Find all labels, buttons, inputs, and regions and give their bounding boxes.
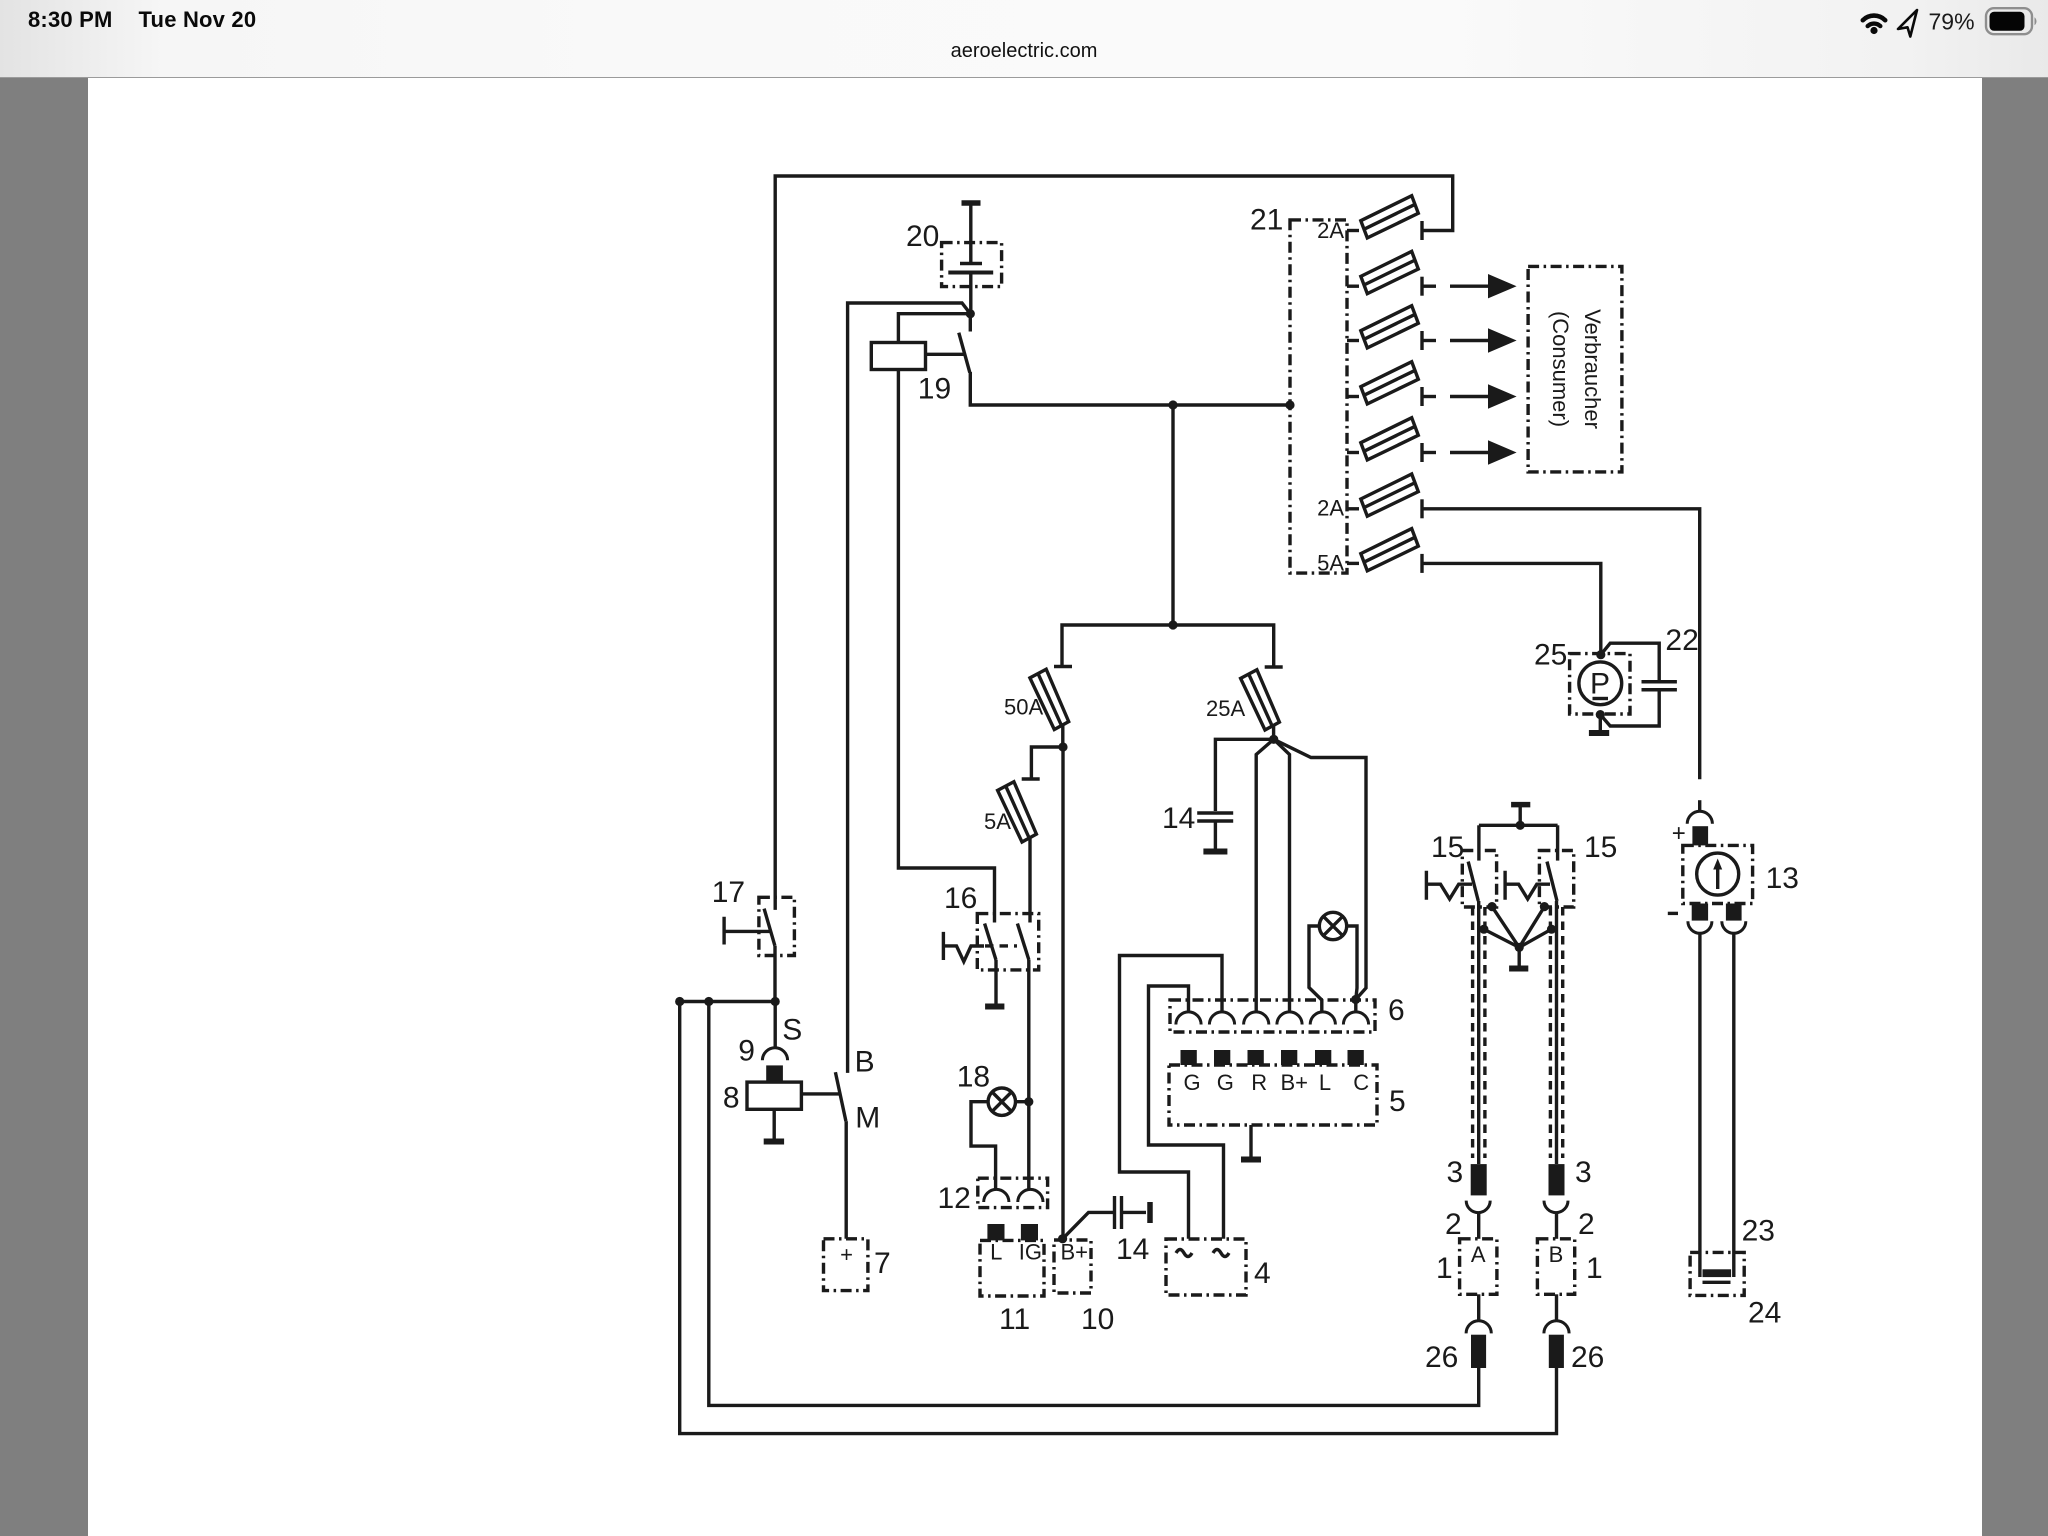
- magneto coil 8: [747, 1082, 801, 1109]
- wire 25A fuse output: [1272, 725, 1275, 739]
- svg-text:25: 25: [1534, 639, 1567, 672]
- svg-text:2: 2: [1578, 1208, 1595, 1241]
- wire terminal to tee: [1518, 807, 1521, 825]
- wire ground return to connector 26 right: [680, 1002, 1557, 1434]
- switch 16 coupling: [985, 944, 1017, 947]
- node 50A output junction: [1058, 742, 1067, 751]
- wire 25A node to connector 6 pin6: [1274, 739, 1366, 999]
- node charge lamp junction: [1351, 995, 1360, 1004]
- wire switch 16 right pole to lamp 18 and connector 12: [1027, 960, 1030, 1189]
- switch 17 blade: [764, 909, 775, 946]
- svg-text:22: 22: [1665, 624, 1698, 657]
- node shield ground: [1515, 943, 1524, 952]
- spark plug 7: [824, 1239, 868, 1291]
- switch 17 actuator: [724, 917, 770, 945]
- svg-text:6: 6: [1388, 994, 1405, 1027]
- wire node to points contact B (long left drop): [848, 303, 971, 1073]
- wire magneto to ground: [773, 1109, 776, 1139]
- ground at switch 16: [985, 1004, 1004, 1010]
- capacitor 14: [1197, 811, 1233, 814]
- wire lamp 18 left lead to connector 12: [971, 1102, 996, 1189]
- wire relay coil top to node: [898, 314, 970, 343]
- capacitor 22: [1642, 680, 1677, 684]
- terminal pin of magneto: [766, 1065, 783, 1082]
- connector socket 2 (B side): [1544, 1201, 1568, 1213]
- wire junction to 5A fuse input: [1031, 747, 1063, 778]
- svg-text:17: 17: [712, 876, 745, 909]
- horn 24: [1690, 1252, 1744, 1295]
- arrow to consumer: [1423, 274, 1517, 298]
- winding symbol ~: [1213, 1250, 1229, 1257]
- svg-text:B+: B+: [1061, 1240, 1089, 1265]
- node ground bus mid: [704, 997, 713, 1006]
- horn lower line: [1703, 1281, 1731, 1284]
- breaker points blade B-M: [835, 1072, 846, 1121]
- svg-text:3: 3: [1575, 1156, 1592, 1189]
- connector pin 3 (B side): [1549, 1164, 1565, 1195]
- fuse F6 in box 21: [1347, 474, 1422, 518]
- connector socket: [1277, 1012, 1302, 1025]
- brake switch 15 left: [1462, 851, 1496, 908]
- wire 5A fuse output to switch 16: [1028, 839, 1031, 923]
- wire fuse7 5A output to motor 25: [1422, 563, 1601, 654]
- svg-text:A: A: [1471, 1242, 1486, 1267]
- svg-text:B+: B+: [1281, 1070, 1309, 1095]
- svg-text:15: 15: [1584, 831, 1617, 864]
- wire 25A node to connector 6 pin4: [1274, 739, 1290, 1012]
- wire main loop: fuse1 output up across top and down to switch 17: [775, 176, 1452, 910]
- wire switch 17 to ground bus: [773, 946, 776, 1002]
- node B+ terminal: [1058, 1234, 1067, 1243]
- wire lamp right to connector 6 pin6: [1347, 926, 1357, 1012]
- relay 19 coil: [871, 343, 925, 370]
- ignition switch 16: [977, 914, 1038, 970]
- svg-text:L: L: [990, 1240, 1002, 1265]
- connector pin 3 (A side): [1471, 1164, 1487, 1195]
- fuse F7 in box 21: [1347, 529, 1422, 573]
- node ground bus left: [675, 997, 684, 1006]
- connector socket: [1176, 1012, 1201, 1025]
- wire gauge 13 to horn 24 left: [1698, 934, 1701, 1278]
- svg-text:12: 12: [938, 1182, 971, 1215]
- supply terminal T-bar: [1511, 802, 1530, 808]
- brake switch 15 right: [1539, 851, 1573, 908]
- connector pin 26 (B side): [1549, 1335, 1564, 1368]
- svg-text:G: G: [1184, 1070, 1201, 1095]
- svg-text:+: +: [840, 1242, 853, 1267]
- connector socket: [1244, 1012, 1269, 1025]
- wire regulator 5 ground lead: [1249, 1125, 1252, 1157]
- wire battery feed to B+ terminal 10: [1061, 747, 1064, 1239]
- relay 19 contact blade: [959, 333, 970, 373]
- wire to left switch 15: [1477, 825, 1480, 860]
- arrow to consumer: [1423, 384, 1517, 408]
- ground at motor 25: [1589, 730, 1609, 736]
- wire feed drop to main fuses: [1171, 405, 1174, 625]
- connector socket: [1209, 1012, 1234, 1025]
- consumer box (Verbraucher): [1528, 266, 1622, 472]
- switch 15 right blade: [1547, 862, 1557, 901]
- device 11: [980, 1240, 1044, 1296]
- wire node to relay contact stub: [969, 314, 972, 332]
- node feed at fuse box 21: [1285, 400, 1294, 409]
- svg-text:1: 1: [1436, 1252, 1453, 1285]
- wire motor top to capacitor 22: [1601, 643, 1659, 680]
- svg-text:14: 14: [1116, 1233, 1149, 1266]
- svg-text:2A: 2A: [1317, 496, 1344, 521]
- connector socket (B side): [1544, 1321, 1569, 1334]
- wire 50A fuse output: [1061, 724, 1064, 747]
- switch 15 right actuator: [1505, 871, 1550, 900]
- node battery/relay junction: [966, 309, 975, 318]
- svg-text:5A: 5A: [1317, 551, 1344, 576]
- wire ground bus: [680, 1000, 776, 1003]
- generator 4: [1166, 1239, 1246, 1295]
- label minus at 13: [1668, 912, 1678, 915]
- svg-text:26: 26: [1571, 1341, 1604, 1374]
- connector socket 2 (A side): [1466, 1201, 1490, 1213]
- battery 20: [942, 243, 1002, 287]
- wire switch 15 right to connector 3 right: [1555, 901, 1558, 1164]
- wire lamp B to connector 26: [1555, 1294, 1558, 1321]
- terminal pin L of 11: [987, 1224, 1004, 1240]
- wire connector 2 to lamp B: [1555, 1212, 1558, 1239]
- wire magneto to breaker points: [801, 1092, 839, 1095]
- connector socket (A side): [1466, 1321, 1491, 1334]
- switch 15 left actuator: [1426, 871, 1472, 900]
- svg-text:5A: 5A: [984, 809, 1011, 834]
- battery icon: [1986, 8, 2032, 34]
- wire relay output feed to fuse panel: [970, 372, 1290, 405]
- svg-text:2A: 2A: [1317, 218, 1344, 243]
- svg-text:14: 14: [1162, 802, 1195, 835]
- fuse 5A: [998, 779, 1040, 842]
- cable sheath left: [1471, 907, 1474, 1158]
- node lamp 18 junction: [1024, 1097, 1033, 1106]
- switch 16 left blade: [985, 924, 996, 961]
- fuse F3 in box 21: [1347, 306, 1422, 350]
- node switch 15 right case: [1540, 902, 1549, 911]
- turn lamp A (1): [1460, 1239, 1497, 1295]
- wire battery top lead: [969, 205, 972, 263]
- wire motor to ground: [1599, 715, 1602, 731]
- svg-text:11: 11: [999, 1303, 1030, 1336]
- ground at magneto 8: [764, 1139, 784, 1145]
- svg-text:Verbraucher: Verbraucher: [1580, 309, 1605, 429]
- svg-text:M: M: [855, 1101, 880, 1134]
- wire capacitor 22 to motor bottom: [1600, 691, 1659, 726]
- svg-text:2: 2: [1445, 1208, 1462, 1241]
- connector socket: [1343, 1012, 1368, 1025]
- wire to right switch 15: [1556, 825, 1559, 860]
- svg-text:B: B: [1549, 1242, 1564, 1267]
- ground at regulator 5: [1241, 1157, 1261, 1163]
- svg-text:9: 9: [738, 1035, 755, 1068]
- wifi icon: [1863, 16, 1885, 27]
- svg-text:16: 16: [944, 882, 977, 915]
- node motor bottom: [1596, 710, 1605, 719]
- connector socket below gauge right: [1722, 921, 1746, 933]
- motor symbol P: [1579, 662, 1622, 705]
- svg-text:IG: IG: [1019, 1240, 1042, 1265]
- fuse box 21: [1290, 220, 1347, 573]
- terminal arc 9: [762, 1048, 787, 1061]
- horn diaphragm bar: [1703, 1269, 1732, 1277]
- connector pin 26 (A side): [1471, 1335, 1486, 1368]
- svg-text:5: 5: [1389, 1085, 1406, 1118]
- wires shield bonding to ground: [1484, 907, 1552, 948]
- regulator 5: [1169, 1065, 1377, 1125]
- wire connector 6 pin2 to generator 4: [1120, 956, 1223, 1239]
- wire 25A node to capacitor 14: [1215, 739, 1273, 811]
- svg-text:10: 10: [1081, 1303, 1114, 1336]
- svg-text:3: 3: [1447, 1156, 1464, 1189]
- wire B+ to capacitor 14 bottom: [1063, 1212, 1113, 1238]
- wire lamp left to connector 6 pin5: [1309, 926, 1322, 1012]
- switch 16 actuator: [943, 932, 984, 962]
- svg-text:8: 8: [723, 1082, 740, 1115]
- connector socket at gauge: [1687, 811, 1712, 824]
- wire switch 15 left to connector 3 left: [1477, 901, 1480, 1164]
- svg-text:20: 20: [906, 220, 939, 253]
- fuse F4 in box 21: [1347, 362, 1422, 406]
- wire battery bottom lead to node: [969, 273, 972, 314]
- connector 12: [978, 1178, 1048, 1207]
- svg-text:(Consumer): (Consumer): [1548, 311, 1573, 427]
- terminal pin of gauge 13 left: [1692, 904, 1708, 921]
- svg-text:21: 21: [1250, 204, 1283, 237]
- svg-text:G: G: [1217, 1070, 1234, 1095]
- wire points M to spark plug 7: [845, 1121, 848, 1239]
- gauge 13: [1683, 845, 1753, 903]
- connector socket below gauge left: [1688, 921, 1712, 933]
- connector socket: [1310, 1012, 1335, 1025]
- svg-text:S: S: [782, 1014, 802, 1047]
- svg-text:1: 1: [1586, 1252, 1603, 1285]
- svg-text:13: 13: [1766, 862, 1799, 895]
- battery 20 terminal T-bar: [962, 200, 981, 206]
- wire connector 6 pin1 to generator 4: [1149, 986, 1224, 1239]
- svg-text:+: +: [1672, 820, 1686, 847]
- terminal pin + of gauge 13: [1692, 826, 1708, 845]
- node 25A output junction: [1269, 735, 1278, 744]
- svg-text:P: P: [1590, 668, 1610, 701]
- fuse 50A: [1030, 667, 1072, 730]
- ground at capacitor 14: [1203, 849, 1227, 855]
- node switch 15 left case: [1487, 902, 1496, 911]
- regulator 5 terminals: [1181, 1050, 1197, 1065]
- capacitor 14 (suppressor): [1113, 1196, 1116, 1229]
- connector socket: [984, 1189, 1009, 1202]
- winding symbol ~: [1176, 1250, 1192, 1257]
- relay 19 actuating link: [926, 353, 965, 356]
- wire tee to 50A and 25A fuse inputs: [1062, 625, 1274, 666]
- fuse F5 in box 21: [1347, 418, 1422, 462]
- svg-text:7: 7: [874, 1247, 891, 1280]
- node feed/branch junction: [1168, 400, 1177, 409]
- svg-text:15: 15: [1431, 831, 1464, 864]
- node ground bus right: [771, 997, 780, 1006]
- wire connector 2 to lamp A: [1477, 1212, 1480, 1239]
- arrow to consumer: [1423, 440, 1517, 464]
- wire lamp A to connector 26: [1477, 1294, 1480, 1321]
- terminal box 10: [1054, 1240, 1091, 1293]
- node sheath right: [1547, 925, 1556, 934]
- svg-text:24: 24: [1748, 1297, 1781, 1330]
- connector strip 6: [1170, 1000, 1375, 1032]
- switch 16 right blade: [1017, 924, 1029, 961]
- wire switch 16 left pole to ground: [994, 960, 997, 1005]
- wire connector stub to gauge 13: [1698, 800, 1701, 811]
- lamp 18: [988, 1088, 1015, 1115]
- fuse 25A: [1241, 667, 1283, 730]
- wire gauge 13 to horn 24 right: [1732, 934, 1735, 1278]
- gauge dial with arrow: [1697, 853, 1739, 895]
- cable sheath right: [1549, 907, 1552, 1158]
- node switches 15 tee: [1516, 821, 1525, 830]
- node motor top: [1596, 650, 1605, 659]
- turn lamp B (1): [1537, 1239, 1574, 1295]
- svg-text:C: C: [1353, 1070, 1369, 1095]
- svg-text:R: R: [1251, 1070, 1267, 1095]
- svg-text:50A: 50A: [1004, 695, 1043, 720]
- wire relay coil bottom to ignition switch 16: [898, 370, 994, 923]
- wire fuse6 2A output to gauge 13: [1422, 509, 1700, 780]
- wire ground return to connector 26 left: [709, 1002, 1479, 1406]
- svg-text:B: B: [855, 1046, 875, 1079]
- svg-text:23: 23: [1742, 1215, 1775, 1248]
- switch 15 left blade: [1468, 862, 1478, 901]
- ground at switches 15: [1509, 966, 1528, 972]
- arrow to consumer: [1423, 328, 1517, 352]
- wire 25A node to connector 6 pin3: [1256, 739, 1274, 1012]
- wire to ground: [1517, 947, 1520, 966]
- svg-text:4: 4: [1254, 1257, 1271, 1290]
- svg-text:19: 19: [918, 372, 951, 405]
- node sheath left: [1479, 925, 1488, 934]
- connector socket: [1018, 1189, 1043, 1202]
- wire lamp 18 right lead: [1016, 1100, 1029, 1103]
- svg-text:L: L: [1319, 1070, 1331, 1095]
- svg-text:25A: 25A: [1206, 696, 1245, 721]
- wire tee crossbar: [1479, 824, 1558, 827]
- wire bus to magneto terminal S: [774, 1002, 777, 1048]
- charge indicator lamp: [1319, 912, 1346, 939]
- wiper motor 25: [1570, 654, 1630, 714]
- location arrow icon: [1898, 10, 1917, 37]
- terminal pin of gauge 13 right: [1726, 904, 1742, 921]
- kill switch 17: [759, 897, 795, 955]
- fuse F2 in box 21: [1347, 251, 1422, 295]
- svg-text:26: 26: [1425, 1341, 1458, 1374]
- node main fuse tee: [1168, 620, 1177, 629]
- svg-text:18: 18: [957, 1061, 990, 1094]
- terminal pin IG of 11: [1021, 1224, 1038, 1240]
- fuse F1 in box 21: [1347, 196, 1422, 240]
